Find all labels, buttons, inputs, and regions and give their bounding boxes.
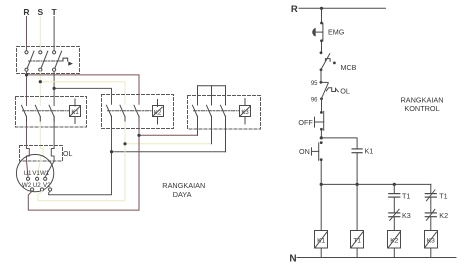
- wire phase R drop to breaker: [26, 17, 28, 51]
- svg-text:MCB: MCB: [341, 63, 357, 72]
- wire K2c2 down (S): [124, 116, 126, 144]
- wire red to K3 contact1: [139, 134, 198, 136]
- star bridge above K3: [198, 86, 226, 105]
- svg-text:OL: OL: [63, 151, 72, 158]
- motor terminal U2: [40, 188, 43, 191]
- svg-text:T1: T1: [353, 238, 361, 245]
- wire to EMG: [321, 8, 323, 21]
- wire branch to K1 contact: [321, 138, 357, 148]
- wire OL to motor V1: [37, 161, 40, 177]
- contactor K2 dashed box: [102, 95, 174, 129]
- contactor K2 linkage dashed: [108, 110, 153, 112]
- wire K3c3 stub down: [225, 116, 227, 151]
- contactor K3 contact 1: [193, 105, 198, 116]
- wire R below breaker: [26, 72, 28, 106]
- svg-text:K2: K2: [390, 238, 398, 245]
- node junction S branch: [39, 80, 42, 83]
- wire R rail: [299, 7, 386, 9]
- motor terminal U1: [26, 177, 29, 180]
- wire EMG to MCB: [321, 42, 323, 51]
- wire T1 to K2 contact col4: [430, 198, 432, 212]
- svg-text:EMG: EMG: [328, 28, 345, 37]
- wire K1 contact to rail: [356, 153, 358, 184]
- coil K3 (power): [240, 99, 251, 125]
- svg-text:N: N: [289, 253, 296, 264]
- contact bottom terminal stubs: [27, 116, 226, 121]
- svg-text:OFF: OFF: [298, 118, 313, 127]
- node rail junction 3: [393, 183, 396, 186]
- coil K2 (power): [153, 100, 164, 125]
- svg-text:K2: K2: [154, 110, 162, 116]
- wire yellow to K3 contact2: [125, 143, 212, 145]
- wire black to K3 contact3: [112, 151, 226, 153]
- breaker Q1 dashed box: [17, 47, 80, 74]
- wire OL to OFF: [321, 99, 323, 111]
- svg-text:W2: W2: [22, 182, 32, 189]
- contact K3 (NC) col3: [389, 209, 400, 220]
- contactor K2 contact 3: [134, 105, 139, 116]
- svg-text:T1: T1: [439, 191, 447, 200]
- contact T1 col4 (NC timed): [425, 190, 436, 201]
- svg-text:R: R: [291, 4, 298, 15]
- node rail junction 2: [356, 183, 359, 186]
- wire T1 coil to N: [356, 248, 358, 257]
- wire K3 coil to N: [430, 248, 432, 257]
- svg-text:K3: K3: [402, 211, 411, 220]
- OL heater S: [40, 148, 43, 161]
- pushbutton EMG: [312, 22, 323, 43]
- wire ON to rail: [320, 160, 322, 185]
- svg-text:95: 95: [311, 81, 318, 87]
- node junction main column: [320, 7, 323, 10]
- pushbutton OFF: [315, 111, 324, 131]
- breaker trip hook and arrow: [63, 58, 73, 66]
- breaker linkage dashed: [29, 60, 64, 62]
- node junction R branch: [25, 73, 28, 76]
- breaker pole 1: [25, 51, 34, 72]
- contactor K3 linkage dashed: [194, 110, 240, 112]
- OL heater T: [51, 148, 54, 161]
- motor terminal W1: [44, 177, 47, 180]
- svg-text:K3: K3: [241, 110, 249, 116]
- svg-text:K2: K2: [439, 211, 448, 220]
- wire S below breaker: [39, 72, 41, 106]
- wire R K1 to OL: [26, 116, 28, 148]
- wire wrap black V2: [49, 152, 112, 195]
- svg-text:DAYA: DAYA: [173, 190, 192, 199]
- wire K2c3 down (R): [138, 116, 140, 135]
- wire phase T drop to breaker: [53, 17, 55, 51]
- wire phase S drop to breaker: [39, 17, 41, 51]
- wire T branch to K2: [54, 88, 111, 104]
- wire T K1 to OL: [53, 116, 55, 148]
- wire rail to T1 coil: [356, 184, 358, 231]
- svg-text:96: 96: [311, 97, 318, 103]
- wire S K1 to OL: [39, 116, 41, 148]
- coil K3 (control): [425, 231, 438, 249]
- wire K3c1 stub down: [197, 116, 199, 135]
- wire T below breaker: [53, 72, 55, 106]
- contact T1 col3 (NO): [389, 194, 400, 198]
- svg-text:T1: T1: [402, 191, 410, 200]
- wire R branch to K2: [27, 75, 140, 104]
- wire N rail: [297, 257, 456, 259]
- svg-text:K3: K3: [427, 238, 435, 245]
- node junction ON/K1: [320, 136, 323, 139]
- svg-text:OL: OL: [340, 87, 350, 96]
- svg-text:KONTROL: KONTROL: [404, 104, 439, 113]
- coil K1 (power): [70, 99, 81, 124]
- wire K3 contact to K2 coil: [393, 217, 395, 231]
- svg-text:K1: K1: [365, 147, 374, 156]
- contact OL 95-96: [320, 81, 339, 100]
- wire K3c2 stub down: [211, 116, 213, 144]
- contactor K1 dashed box: [16, 97, 87, 128]
- motor terminal V2: [49, 188, 52, 191]
- node junction W2 wrap: [137, 134, 140, 137]
- coil T1 (control): [351, 231, 364, 249]
- contactor K1 linkage dashed: [23, 110, 70, 112]
- wire K2 contact to K3 coil: [430, 217, 432, 231]
- wire rail corner to T1 contact col4: [430, 184, 432, 193]
- contact K1 (NO): [352, 149, 362, 153]
- breaker pole 3: [53, 51, 62, 72]
- contact K2 (NC) col4: [425, 209, 436, 220]
- wire rail to T1 contact col3: [393, 184, 395, 193]
- breaker pole 2: [39, 51, 48, 72]
- svg-text:T: T: [51, 7, 57, 17]
- wire wrap yellow U2: [38, 144, 125, 201]
- contactor K3 contact 2: [207, 105, 212, 116]
- motor terminal V1: [36, 177, 39, 180]
- wire K1 coil to N: [320, 248, 322, 257]
- wire bottom rail: [321, 183, 431, 185]
- svg-text:U1: U1: [24, 170, 32, 177]
- coil K1 (control): [315, 231, 328, 249]
- node junction U2 wrap: [123, 142, 126, 145]
- contactor K1 contact 1: [22, 105, 27, 116]
- wire S branch to K2: [40, 82, 125, 105]
- svg-text:W1: W1: [40, 170, 50, 177]
- wire OFF to junction: [320, 129, 322, 138]
- motor M1 circle: [16, 154, 53, 191]
- svg-text:R: R: [23, 7, 29, 17]
- overload OL dashed box: [20, 146, 63, 162]
- OL heater R: [27, 148, 30, 161]
- contactor K1 contact 3: [49, 105, 54, 116]
- svg-text:K1: K1: [71, 110, 79, 116]
- contactor K3 dashed box: [188, 96, 261, 130]
- wire rail to K1 coil: [320, 184, 322, 231]
- svg-text:RANGKAIAN: RANGKAIAN: [162, 181, 205, 190]
- svg-text:S: S: [37, 7, 43, 17]
- wire OL to motor U1: [27, 161, 29, 177]
- contactor K2 contact 1: [107, 105, 112, 116]
- pushbutton ON: [312, 141, 323, 161]
- wire T1 to K3 contact: [393, 198, 395, 212]
- coil K2 (control): [388, 231, 401, 249]
- node junction V2 wrap: [110, 150, 113, 153]
- wire K2 coil to N: [393, 248, 395, 257]
- wire K2c1 down (T): [111, 116, 113, 151]
- contactor K2 contact 2: [120, 105, 125, 116]
- motor terminal W2: [31, 188, 34, 191]
- breaker MCB: [320, 51, 336, 71]
- wire wrap red W2: [28, 135, 139, 210]
- wire MCB to OL: [320, 70, 322, 82]
- contactor K3 contact 3: [221, 105, 226, 116]
- svg-text:ON: ON: [299, 147, 310, 156]
- svg-text:K1: K1: [317, 238, 325, 245]
- wire OL to motor W1: [45, 161, 54, 177]
- contactor K1 contact 2: [35, 105, 40, 116]
- node rail junction 1: [320, 183, 323, 186]
- node junction T branch: [53, 87, 56, 90]
- svg-text:U2: U2: [33, 182, 41, 189]
